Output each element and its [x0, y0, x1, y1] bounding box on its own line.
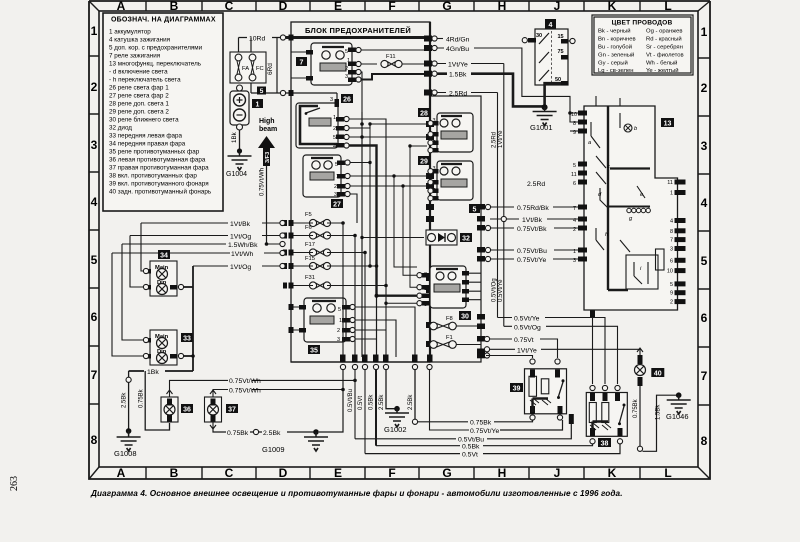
svg-text:0.5Bk: 0.5Bk	[369, 394, 375, 410]
headlamp 33	[144, 330, 193, 365]
svg-text:F: F	[388, 466, 395, 480]
svg-text:7: 7	[300, 60, 304, 67]
svg-text:High: High	[259, 118, 275, 125]
stubs above box 13	[570, 96, 620, 131]
svg-text:0.5Vt/Og: 0.5Vt/Og	[514, 324, 541, 331]
wire 13 bottom to fog switch 38	[592, 310, 594, 384]
ignition switch 4	[528, 19, 570, 86]
wire 0.5Vt/Ye row	[498, 318, 606, 385]
relay 27	[303, 155, 345, 209]
svg-text:Og - оранжев: Og - оранжев	[646, 29, 683, 35]
svg-text:Bu - голубой: Bu - голубой	[598, 44, 632, 51]
ground G1046	[666, 392, 691, 421]
wire 1Vt/Og	[130, 235, 280, 237]
wire 4Rd/Gn stub	[437, 38, 443, 40]
wire switch4 pin50 to ground	[545, 83, 561, 106]
svg-text:E: E	[334, 466, 342, 480]
svg-text:0.5Vt/Bu: 0.5Vt/Bu	[348, 389, 354, 412]
svg-text:4 катушка зажигания: 4 катушка зажигания	[109, 37, 170, 44]
wire drop to 0.75Vt/Ye row	[430, 370, 470, 430]
ground G1004	[226, 148, 252, 178]
wire 0.75Vt/Bk row	[490, 227, 584, 229]
svg-text:10: 10	[667, 269, 673, 275]
svg-text:K: K	[608, 0, 617, 13]
svg-text:F8: F8	[446, 316, 453, 322]
wire 0.75Vt row	[490, 339, 558, 358]
svg-text:Gy - серый: Gy - серый	[598, 60, 628, 67]
svg-text:5: 5	[345, 49, 348, 55]
svg-text:0.75Rd/Bk: 0.75Rd/Bk	[517, 205, 549, 212]
label 5 aux fuse box	[257, 87, 266, 95]
relay 28	[418, 108, 473, 154]
svg-text:0.75Vt/Wh: 0.75Vt/Wh	[260, 168, 266, 196]
svg-text:Gn - зеленый: Gn - зеленый	[598, 52, 634, 59]
wire relay7 pin1 to F11	[356, 63, 377, 65]
aux box right edge pins	[477, 204, 485, 354]
svg-text:J: J	[554, 0, 561, 13]
svg-text:2.5Bk: 2.5Bk	[263, 430, 281, 437]
svg-text:1.5Wh/Bk: 1.5Wh/Bk	[228, 242, 258, 249]
svg-text:37: 37	[228, 407, 236, 414]
main vertical bus wires in fuse box	[343, 22, 430, 362]
svg-text:3: 3	[91, 138, 98, 152]
relay 35	[291, 298, 350, 355]
svg-text:3: 3	[334, 192, 337, 198]
svg-text:28: 28	[420, 111, 428, 118]
svg-text:F11: F11	[386, 54, 396, 60]
svg-text:1Vt/Ye: 1Vt/Ye	[517, 347, 537, 354]
svg-text:39: 39	[513, 386, 521, 393]
wire 2.5Bk to G1008	[128, 371, 130, 431]
svg-text:9: 9	[670, 291, 673, 297]
svg-text:33 передняя левая фара: 33 передняя левая фара	[109, 133, 183, 140]
high beam arrow 3/F3	[258, 118, 277, 166]
svg-text:5: 5	[91, 253, 98, 267]
svg-text:1: 1	[91, 24, 98, 38]
fuse F17	[291, 242, 365, 256]
relay 30 right pins	[462, 271, 469, 302]
svg-text:J: J	[554, 466, 561, 480]
wire 10Rd feed	[239, 37, 431, 39]
frame corner diagonal bottom-right	[698, 467, 710, 479]
svg-text:1: 1	[573, 249, 576, 255]
svg-text:1Vt/Og: 1Vt/Og	[230, 264, 251, 271]
svg-text:1Vt/Ye: 1Vt/Ye	[498, 130, 504, 148]
wire from bottom pin x343 to G1009	[319, 370, 343, 432]
svg-text:1: 1	[339, 318, 342, 324]
wire 0.5Bk drop	[375, 370, 377, 446]
fuse F8	[430, 316, 481, 330]
relay 28 29 30 left connectors	[428, 121, 433, 126]
svg-text:C: C	[225, 466, 234, 480]
svg-text:1Vt/Bk: 1Vt/Bk	[230, 221, 251, 228]
svg-text:0.75Vt: 0.75Vt	[514, 337, 534, 344]
svg-text:F5: F5	[305, 212, 312, 218]
svg-text:0.5Vt/Ye: 0.5Vt/Ye	[514, 316, 540, 323]
svg-text:35 реле противотуманных фар: 35 реле противотуманных фар	[109, 149, 200, 156]
fuse block box	[291, 22, 430, 362]
ground G1002	[384, 406, 409, 434]
wire row93 into fuse box	[251, 83, 337, 101]
svg-text:28 реле доп. света 1: 28 реле доп. света 1	[109, 101, 169, 108]
svg-text:0.5Vt/Bu: 0.5Vt/Bu	[458, 437, 484, 444]
wire 4Gn/Bu to box 13	[437, 48, 578, 122]
fog lamp 36	[161, 390, 193, 422]
wire relay7 pin3 1.5Bk	[356, 74, 430, 80]
svg-text:8: 8	[91, 433, 98, 447]
svg-text:1.5Bk: 1.5Bk	[656, 404, 662, 420]
svg-text:2.5Rd: 2.5Rd	[449, 91, 467, 98]
fuse F6	[291, 225, 355, 239]
svg-text:Bn - коричнев: Bn - коричнев	[598, 37, 636, 43]
svg-text:H: H	[498, 466, 507, 480]
wire 0.75Bk / 2.5Bk to G1009	[213, 429, 316, 432]
svg-text:F: F	[388, 0, 395, 13]
svg-text:1Bk: 1Bk	[147, 369, 159, 376]
wire 0.75Vt/Ye row	[500, 420, 563, 430]
svg-text:2: 2	[573, 227, 576, 233]
svg-text:8: 8	[701, 434, 708, 448]
svg-text:29 реле доп. света 2: 29 реле доп. света 2	[109, 109, 169, 116]
wire 1Vt/Wh	[112, 252, 280, 254]
svg-text:FC: FC	[256, 66, 264, 72]
wire 0.5Vt drop	[364, 370, 366, 454]
svg-text:263: 263	[9, 476, 20, 491]
svg-text:4: 4	[670, 219, 673, 225]
svg-text:6: 6	[91, 310, 98, 324]
svg-text:3: 3	[670, 247, 673, 253]
svg-text:2: 2	[670, 300, 673, 306]
svg-text:K: K	[608, 466, 617, 480]
fuse F1	[430, 335, 481, 348]
svg-text:40: 40	[654, 371, 662, 378]
svg-text:БЛОК ПРЕДОХРАНИТЕЛЕЙ: БЛОК ПРЕДОХРАНИТЕЛЕЙ	[305, 26, 411, 35]
svg-text:6: 6	[670, 258, 673, 264]
svg-text:0.5Bk: 0.5Bk	[462, 444, 480, 451]
svg-text:- d включение света: - d включение света	[109, 69, 168, 76]
wire 0.5Vt/Og row	[504, 326, 618, 384]
wire ground net 1Bk lamps	[129, 266, 193, 371]
svg-text:6: 6	[573, 181, 576, 187]
svg-text:ОБОЗНАЧ. НА ДИАГРАММАХ: ОБОЗНАЧ. НА ДИАГРАММАХ	[111, 17, 216, 24]
wire to fog switch 39 left	[486, 356, 533, 359]
svg-text:30: 30	[461, 314, 469, 321]
svg-text:1: 1	[333, 115, 336, 121]
svg-text:A: A	[117, 466, 126, 480]
fuse F11	[381, 54, 430, 68]
svg-text:11: 11	[667, 180, 673, 186]
sub box bottom right	[626, 255, 658, 289]
svg-text:7: 7	[670, 238, 673, 244]
frame inner box	[99, 11, 698, 467]
grid numbers left column	[91, 24, 98, 447]
fuse F31	[291, 275, 386, 289]
svg-text:3: 3	[573, 258, 576, 264]
svg-text:4: 4	[333, 144, 336, 150]
bus x=430 edge pins	[424, 36, 434, 348]
svg-text:2.5Rd: 2.5Rd	[527, 181, 545, 188]
svg-text:Lg - св-зелен: Lg - св-зелен	[598, 68, 634, 74]
wire 6Rd vertical	[239, 38, 278, 94]
svg-text:4: 4	[701, 196, 708, 210]
wire 2.5Bk drop to 0.75Bk row	[414, 370, 416, 419]
left pins	[578, 111, 587, 262]
svg-text:G1004: G1004	[226, 171, 247, 178]
svg-text:36: 36	[183, 407, 191, 414]
wire 0.75Vt/Bu row	[490, 249, 584, 251]
svg-text:L: L	[664, 0, 671, 13]
svg-text:1Vt/Bk: 1Vt/Bk	[522, 217, 543, 224]
svg-text:29: 29	[420, 159, 428, 166]
svg-text:F31: F31	[305, 275, 315, 281]
wire 0.75Vt/Ye row	[490, 258, 584, 260]
wires relay 27 outputs	[350, 163, 430, 267]
svg-text:34: 34	[160, 253, 168, 260]
svg-text:F1: F1	[446, 335, 453, 341]
svg-text:0.75Bk: 0.75Bk	[227, 430, 249, 437]
svg-text:B: B	[170, 466, 179, 480]
svg-text:2: 2	[345, 66, 348, 72]
internal switches	[591, 113, 645, 252]
aux fuse box with FA FC	[230, 52, 266, 83]
svg-text:Wh - белый: Wh - белый	[646, 60, 677, 67]
wire 0.75Vt/Wh lamp37	[213, 389, 343, 392]
svg-text:1 аккумулятор: 1 аккумулятор	[109, 29, 151, 36]
svg-text:11: 11	[571, 172, 577, 178]
svg-text:FA: FA	[242, 66, 249, 72]
svg-text:G1009: G1009	[262, 445, 285, 454]
svg-text:7 реле зажигания: 7 реле зажигания	[109, 53, 160, 60]
wire relay7 pin2 drop	[356, 72, 362, 112]
svg-text:0.75Bk: 0.75Bk	[139, 388, 145, 408]
svg-text:Rd - красный: Rd - красный	[646, 36, 682, 43]
diode 32	[426, 230, 472, 245]
svg-text:27 реле света фар 2: 27 реле света фар 2	[109, 93, 169, 100]
legend box: wire colors	[592, 15, 693, 75]
svg-text:39 вкл. противотуманного фонар: 39 вкл. противотуманного фонаря	[109, 181, 209, 188]
fuse FA	[235, 54, 249, 81]
svg-text:3/F3: 3/F3	[265, 152, 271, 163]
wire 1Vt/Bk row	[490, 218, 584, 220]
svg-text:2: 2	[91, 80, 98, 94]
svg-text:7: 7	[91, 368, 98, 382]
svg-text:5 доп. кор. с предохранителями: 5 доп. кор. с предохранителями	[109, 45, 203, 52]
svg-text:0.75Bk: 0.75Bk	[633, 398, 639, 418]
svg-text:13: 13	[664, 121, 672, 128]
svg-text:27: 27	[333, 202, 341, 209]
svg-text:3: 3	[701, 139, 708, 153]
svg-text:h: h	[605, 232, 608, 238]
wire 0.75Vt/Wh lamp36	[170, 380, 356, 390]
frame corner diagonal bottom-left	[89, 467, 99, 479]
wire 1Vt/Ye vertical bus	[503, 64, 505, 327]
wire 0.5Vt/Bu drop	[354, 370, 356, 439]
svg-text:ЦВЕТ ПРОВОДОВ: ЦВЕТ ПРОВОДОВ	[612, 20, 673, 27]
svg-text:40 задн. противотуманный фонар: 40 задн. противотуманный фонарь	[109, 188, 212, 196]
svg-text:35: 35	[310, 348, 318, 355]
wire rows to lamps	[112, 223, 280, 356]
svg-text:3: 3	[345, 74, 348, 80]
wire 0.75Bk row	[418, 420, 533, 422]
svg-text:0.5Vt/Og: 0.5Vt/Og	[492, 278, 498, 302]
wire 1Vt/Bk	[141, 222, 280, 224]
svg-text:2: 2	[337, 328, 340, 334]
svg-text:0.75Vt/Ye: 0.75Vt/Ye	[470, 428, 499, 435]
grid numbers right column	[701, 25, 708, 448]
svg-text:1: 1	[670, 191, 673, 197]
wire 0.5Bk row	[376, 444, 593, 446]
right pins	[675, 180, 686, 305]
svg-text:G1002: G1002	[384, 425, 407, 434]
svg-text:5: 5	[333, 135, 336, 141]
grid letter ticks bottom	[146, 467, 640, 479]
svg-text:F6: F6	[305, 225, 312, 231]
connector row inside	[627, 208, 651, 212]
aux fuse box 5	[430, 96, 481, 362]
svg-text:13 многофункц. переключатель: 13 многофункц. переключатель	[109, 61, 202, 68]
svg-text:5: 5	[260, 88, 264, 95]
svg-text:E: E	[334, 0, 342, 13]
ground G1008	[114, 428, 141, 458]
grid letter ticks top	[146, 1, 640, 11]
svg-text:26 реле света фар 1: 26 реле света фар 1	[109, 85, 169, 92]
svg-text:34 передняя правая фара: 34 передняя правая фара	[109, 141, 186, 148]
ground G1009	[262, 429, 328, 454]
internal: thick bus	[608, 106, 628, 290]
fuse box left edge connector pins	[283, 35, 294, 334]
svg-text:Диаграмма 4. Основное внешнее: Диаграмма 4. Основное внешнее освещение …	[90, 488, 623, 498]
wire 1Vt/Og 2	[193, 265, 280, 267]
svg-text:2.5Bk: 2.5Bk	[379, 394, 385, 410]
svg-text:6: 6	[701, 311, 708, 325]
svg-text:H: H	[498, 0, 507, 13]
headlamp 34	[144, 250, 177, 296]
relay 7	[291, 43, 356, 85]
svg-text:F17: F17	[305, 242, 315, 248]
wires relay 35 outputs	[355, 307, 415, 357]
grid letters top row	[117, 0, 672, 13]
wire relay7 pin5	[356, 49, 430, 51]
grid number ticks left	[89, 56, 99, 404]
svg-text:7: 7	[573, 206, 576, 212]
svg-text:4: 4	[573, 218, 576, 224]
svg-text:33: 33	[183, 336, 191, 343]
svg-text:2: 2	[701, 81, 708, 95]
svg-text:8: 8	[670, 229, 673, 235]
svg-text:6Rd: 6Rd	[267, 63, 274, 75]
svg-text:2: 2	[334, 184, 337, 190]
svg-text:2.5Rd: 2.5Rd	[492, 132, 498, 148]
svg-text:0.5Vt/Ye: 0.5Vt/Ye	[498, 279, 504, 302]
wire 0.75Rd/Bk	[490, 206, 584, 208]
svg-text:1Vt/Wh: 1Vt/Wh	[231, 251, 254, 258]
svg-text:D: D	[279, 466, 288, 480]
svg-text:1.5Bk: 1.5Bk	[449, 72, 467, 79]
svg-text:B: B	[170, 0, 179, 13]
svg-text:75: 75	[558, 49, 564, 55]
svg-text:D: D	[279, 0, 288, 13]
wire 1Vt/Ye row	[490, 349, 640, 352]
svg-text:8: 8	[573, 121, 576, 127]
svg-text:0.75Vt/Wh: 0.75Vt/Wh	[229, 378, 261, 385]
battery 1	[230, 85, 263, 130]
svg-text:4: 4	[91, 195, 98, 209]
wires relay 26 outputs	[349, 119, 430, 296]
grid number ticks right	[698, 58, 710, 405]
legend box: symbol designations	[103, 13, 223, 211]
wire 0.75Bk to fog lamp 36	[145, 371, 169, 430]
svg-text:37 правая противотуманная фара: 37 правая противотуманная фара	[109, 165, 209, 172]
svg-text:F15: F15	[305, 256, 315, 262]
svg-text:L: L	[664, 466, 671, 480]
lower right wire rows	[486, 310, 640, 384]
svg-text:G1046: G1046	[666, 412, 689, 421]
svg-text:1Vt/Ye: 1Vt/Ye	[448, 62, 468, 69]
svg-text:G1001: G1001	[530, 123, 553, 132]
svg-text:3: 3	[330, 97, 333, 103]
svg-text:30: 30	[536, 33, 542, 39]
relay 26	[296, 94, 353, 150]
wire mesh in fuse box gap	[362, 124, 427, 303]
svg-text:C: C	[225, 0, 234, 13]
svg-text:38: 38	[601, 441, 609, 448]
svg-text:7: 7	[701, 369, 708, 383]
svg-text:0.75Vt/Bk: 0.75Vt/Bk	[517, 226, 547, 233]
wire 0.75Vt/Wh from high beam down	[266, 166, 268, 244]
grid letters bottom row	[117, 466, 672, 480]
wire 1Vt/Ye row	[437, 63, 504, 65]
svg-text:4Rd/Gn: 4Rd/Gn	[446, 37, 470, 44]
svg-text:G: G	[442, 466, 451, 480]
wire 0.5Vt row	[365, 444, 620, 454]
junction dots	[341, 122, 388, 298]
frame corner diagonal top-left	[89, 1, 99, 11]
svg-text:5: 5	[701, 254, 708, 268]
svg-text:38 вкл. противотуманных фар: 38 вкл. противотуманных фар	[109, 173, 197, 180]
frame corner diagonal top-right	[698, 1, 710, 11]
svg-text:3: 3	[337, 337, 340, 343]
svg-text:0.75Vt/Wh: 0.75Vt/Wh	[229, 387, 261, 394]
svg-text:1Bk: 1Bk	[231, 131, 238, 143]
svg-text:A: A	[117, 0, 126, 13]
svg-text:beam: beam	[259, 126, 277, 133]
svg-text:0.75Vt/Bu: 0.75Vt/Bu	[517, 248, 547, 255]
svg-text:Sr - серебрян: Sr - серебрян	[646, 45, 683, 51]
svg-text:1: 1	[701, 25, 708, 39]
svg-text:1Vt/Og: 1Vt/Og	[230, 234, 251, 241]
svg-text:5: 5	[338, 307, 341, 313]
wire 1.5Wh/Bk	[122, 243, 280, 245]
svg-text:30 реле ближнего света: 30 реле ближнего света	[109, 116, 179, 124]
svg-text:32: 32	[462, 236, 470, 243]
relay 30	[422, 266, 471, 321]
svg-text:- h переключатель света: - h переключатель света	[109, 77, 181, 84]
svg-text:G1008: G1008	[114, 449, 137, 458]
fuse F5	[291, 212, 343, 227]
svg-text:Vt - фиолетов: Vt - фиолетов	[646, 53, 684, 59]
svg-text:0.5Vt: 0.5Vt	[462, 452, 478, 459]
svg-text:0.75Vt/Ye: 0.75Vt/Ye	[517, 257, 546, 264]
svg-text:2: 2	[333, 126, 336, 132]
svg-text:36 левая противотуманная фара: 36 левая противотуманная фара	[109, 157, 206, 164]
svg-text:2.5Bk: 2.5Bk	[122, 392, 128, 408]
wire 2.5Bk drop to G1002	[386, 370, 395, 409]
svg-text:c: c	[607, 164, 610, 170]
verticals to lamps	[141, 223, 146, 271]
svg-text:0.75Bk: 0.75Bk	[470, 420, 492, 427]
svg-text:5: 5	[473, 207, 477, 214]
fog lamp 37	[205, 390, 239, 429]
